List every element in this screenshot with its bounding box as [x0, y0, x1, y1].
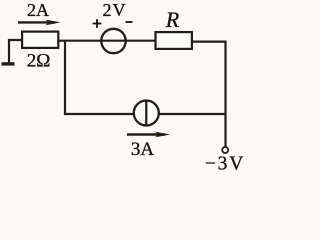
svg-text:2A: 2A — [27, 0, 49, 20]
svg-text:2V: 2V — [103, 0, 127, 20]
svg-text:−3V: −3V — [205, 154, 245, 175]
svg-text:2Ω: 2Ω — [27, 51, 51, 72]
svg-text:3A: 3A — [131, 139, 155, 160]
svg-text:R: R — [165, 7, 180, 32]
